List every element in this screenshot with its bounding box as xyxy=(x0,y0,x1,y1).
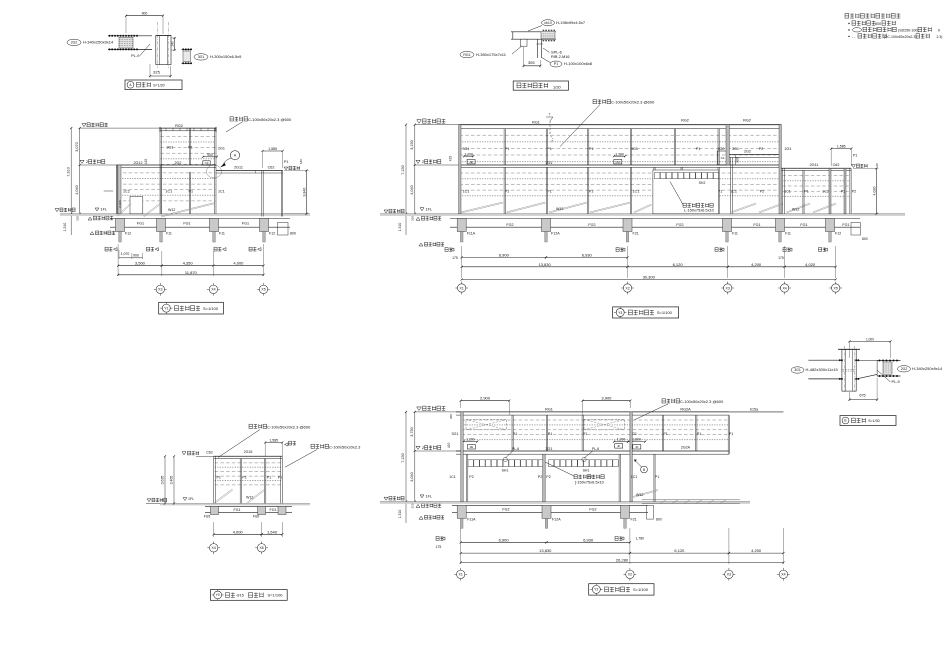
svg-text:13,830: 13,830 xyxy=(539,548,552,553)
W edge and door columns xyxy=(461,412,463,502)
svg-text:(SD250-100): (SD250-100) xyxy=(898,28,919,32)
svg-text:P1: P1 xyxy=(284,160,288,164)
svg-text:X3: X3 xyxy=(726,286,730,290)
svg-text:JE: JE xyxy=(470,445,474,449)
svg-text:1FL: 1FL xyxy=(426,207,433,211)
svg-text:P1: P1 xyxy=(697,432,702,436)
svg-text:CU: CU xyxy=(616,160,620,164)
W ground extension right xyxy=(642,499,740,501)
svg-text:X3: X3 xyxy=(158,288,162,292)
S level label xyxy=(182,452,186,455)
W left dim chain xyxy=(405,412,407,523)
W shutter strips SH1 xyxy=(468,460,544,467)
svg-text:1,310: 1,310 xyxy=(398,510,402,519)
S note tate-dobuchi xyxy=(311,444,329,448)
svg-text:P2: P2 xyxy=(760,190,765,194)
svg-text:SH2: SH2 xyxy=(699,181,706,185)
right lean-to columns Y1 xyxy=(261,171,263,217)
duct box C4 xyxy=(717,151,728,165)
svg-text:RG1: RG1 xyxy=(463,53,470,57)
svg-text:2G2: 2G2 xyxy=(901,367,908,371)
svg-text:X1: X1 xyxy=(459,573,463,577)
svg-text:X1: X1 xyxy=(460,286,464,290)
svg-text:4,040: 4,040 xyxy=(410,472,414,482)
note yoko-dobuchi with leader Y1 xyxy=(230,117,248,121)
detail C corner bolts and column splice xyxy=(839,359,841,361)
svg-text:FG1: FG1 xyxy=(753,223,760,227)
S braces xyxy=(215,490,233,504)
W dim row1 6900 6930 xyxy=(461,541,547,543)
svg-text:1FL: 1FL xyxy=(188,497,194,501)
S top beam xyxy=(214,455,283,457)
svg-text:1,310: 1,310 xyxy=(63,223,67,232)
svg-text:F11: F11 xyxy=(166,232,172,236)
svg-text:FG2: FG2 xyxy=(502,508,509,512)
svg-text:FG1: FG1 xyxy=(137,222,144,226)
svg-text:FG5: FG5 xyxy=(204,514,211,518)
Y1 level 1FL and GL xyxy=(95,208,99,211)
lower building 2F beams xyxy=(117,164,217,166)
right lean-to dim 1585 xyxy=(263,150,283,152)
W 2F floor beam xyxy=(456,450,729,452)
svg-text:140: 140 xyxy=(171,41,175,47)
svg-text:RG2: RG2 xyxy=(743,119,751,123)
svg-text:3,750: 3,750 xyxy=(410,427,414,437)
svg-text:1,800: 1,800 xyxy=(632,438,641,442)
S dim 1585 top xyxy=(265,442,282,444)
column X3 upper gray xyxy=(726,125,729,165)
svg-text:2,900: 2,900 xyxy=(480,396,491,401)
svg-text:SH1: SH1 xyxy=(502,469,509,473)
W grid bubbles xyxy=(454,573,457,575)
svg-text:X3: X3 xyxy=(727,573,731,577)
lower bldg mid column 1C1 xyxy=(159,165,161,214)
svg-text:H-350x175x7x11: H-350x175x7x11 xyxy=(476,52,507,57)
svg-text:P1: P1 xyxy=(548,432,553,436)
W 2F wall hatch xyxy=(462,419,728,421)
svg-text:F11A: F11A xyxy=(467,232,476,236)
svg-text:175: 175 xyxy=(778,256,784,260)
S wall hatch xyxy=(215,462,282,464)
svg-text:X4: X4 xyxy=(782,286,786,290)
svg-text:F12: F12 xyxy=(835,232,841,236)
svg-text:F21: F21 xyxy=(631,518,637,522)
svg-text:7,310: 7,310 xyxy=(67,167,71,177)
M dim row2 13830 6120 4200 4020 xyxy=(462,266,628,268)
M footing beams xyxy=(450,218,860,220)
M building edge columns xyxy=(459,125,461,214)
svg-text:P1: P1 xyxy=(589,190,594,194)
svg-text:2G2: 2G2 xyxy=(71,41,78,45)
svg-text:P1: P1 xyxy=(853,154,857,158)
svg-text:FG1: FG1 xyxy=(242,222,249,226)
Y1 column center marks xyxy=(105,247,112,251)
svg-text:4,200: 4,200 xyxy=(751,548,762,553)
detail B title box xyxy=(513,81,568,90)
svg-text:1FL: 1FL xyxy=(101,208,108,212)
joint detail circle at A xyxy=(206,165,221,178)
svg-text:60: 60 xyxy=(875,163,879,167)
svg-text:2G1: 2G1 xyxy=(546,447,553,451)
svg-text:JF: JF xyxy=(617,444,621,448)
svg-text:X4: X4 xyxy=(211,288,215,292)
svg-text:S=1/20: S=1/20 xyxy=(153,83,165,87)
svg-text:F12: F12 xyxy=(125,232,131,236)
svg-text:1FL: 1FL xyxy=(426,495,433,499)
svg-text:P2: P2 xyxy=(852,190,856,194)
tower RG2 roof beam xyxy=(160,127,216,129)
lower bldg post P1 xyxy=(188,172,190,214)
label RG1 H-350x175x7x11 xyxy=(460,51,474,57)
svg-text:FG2: FG2 xyxy=(588,223,595,227)
W brace W12 right xyxy=(633,491,658,498)
svg-text:RIB 2-M16: RIB 2-M16 xyxy=(551,54,570,59)
label cb10 H-198x99x4.5x7 xyxy=(542,20,555,26)
svg-text:C-100x50x20x2.3: C-100x50x20x2.3 xyxy=(329,444,361,449)
svg-text:1,585: 1,585 xyxy=(269,439,278,443)
svg-text:C-100x50x20x2.3 @600: C-100x50x20x2.3 @600 xyxy=(267,424,311,429)
right vertical dim 3840 xyxy=(284,170,309,172)
svg-text:2: 2 xyxy=(86,159,88,164)
svg-text:FG2: FG2 xyxy=(676,223,683,227)
S title xyxy=(210,590,287,601)
svg-text:310: 310 xyxy=(410,503,414,508)
detail A dim 900 xyxy=(126,15,163,17)
svg-text:X5: X5 xyxy=(834,286,838,290)
M small dim 1200 left and box xyxy=(464,155,473,157)
braces Y1 xyxy=(118,204,131,217)
svg-text:X5: X5 xyxy=(261,288,265,292)
Y1 dim row 3500 4350 4000 xyxy=(118,265,162,267)
svg-text:3,070: 3,070 xyxy=(75,142,79,152)
M lean-to dim 1585 xyxy=(831,148,851,150)
svg-text:3G1: 3G1 xyxy=(732,147,739,151)
detail C haunch diagonal xyxy=(856,374,877,379)
svg-text:800: 800 xyxy=(290,232,296,236)
svg-text:FG1: FG1 xyxy=(270,508,277,512)
svg-text:P1: P1 xyxy=(217,476,221,480)
lower bldg left edge column 1C2 xyxy=(117,165,121,214)
svg-text:P1: P1 xyxy=(188,146,193,150)
svg-text:6,930: 6,930 xyxy=(583,537,594,542)
svg-text:P1: P1 xyxy=(554,62,558,66)
M level labels left xyxy=(415,124,459,126)
svg-text:C4: C4 xyxy=(721,156,725,160)
svg-text:3G1: 3G1 xyxy=(452,432,459,436)
svg-text:1C2: 1C2 xyxy=(822,190,829,194)
svg-text:4,020: 4,020 xyxy=(805,262,816,267)
svg-text:W12: W12 xyxy=(168,208,175,212)
svg-text:C62: C62 xyxy=(206,451,213,455)
lower building wall hatch Y1 xyxy=(117,172,215,174)
svg-text:2,100: 2,100 xyxy=(118,200,122,208)
svg-text:H-100x100x6x8: H-100x100x6x8 xyxy=(564,61,593,66)
svg-text:2G1: 2G1 xyxy=(546,161,553,165)
svg-text:1C1: 1C1 xyxy=(633,190,640,194)
tower wall hatch xyxy=(161,135,216,137)
M roof beam RG1-RG2 xyxy=(459,124,782,126)
svg-text:305: 305 xyxy=(528,60,535,65)
svg-text:C-100x50x20x2.3 @600: C-100x50x20x2.3 @600 xyxy=(680,399,724,404)
svg-text:2G2: 2G2 xyxy=(175,161,182,165)
svg-text:310: 310 xyxy=(75,216,79,221)
svg-text:325: 325 xyxy=(153,69,160,74)
beam 2G2 section with splice bolts xyxy=(108,35,152,37)
svg-text:P1: P1 xyxy=(267,476,271,480)
svg-text:2G12: 2G12 xyxy=(133,161,142,165)
svg-text:410: 410 xyxy=(447,442,451,448)
M 2F posts xyxy=(503,129,505,165)
svg-text:PL-9: PL-9 xyxy=(131,53,140,58)
svg-text:RG2A: RG2A xyxy=(680,407,691,411)
svg-text:2G2A: 2G2A xyxy=(681,445,691,449)
svg-text:13,830: 13,830 xyxy=(538,262,551,267)
Y1 BPL and foundation level labels xyxy=(88,217,92,220)
M braces W12 xyxy=(461,203,503,213)
S footing pedestals xyxy=(211,506,219,514)
W footing beams xyxy=(452,504,648,506)
W title xyxy=(589,584,654,595)
cb10 splice hatch xyxy=(541,32,555,39)
box C3F at tower right xyxy=(203,161,210,165)
svg-text:P1: P1 xyxy=(278,476,282,480)
svg-text:FG1: FG1 xyxy=(800,223,807,227)
svg-text:6,120: 6,120 xyxy=(674,548,685,553)
svg-text:1,780: 1,780 xyxy=(636,537,645,541)
M 1F wall hatch xyxy=(460,172,781,174)
detail A title box xyxy=(125,80,182,90)
svg-text:3,900: 3,900 xyxy=(601,396,612,401)
beam 3G1 lines xyxy=(808,359,842,361)
svg-text:2G2: 2G2 xyxy=(744,150,751,154)
W circled B marker xyxy=(641,466,648,473)
svg-text:P1: P1 xyxy=(242,476,246,480)
Y1 title xyxy=(159,302,224,314)
svg-text:4,040: 4,040 xyxy=(410,185,414,195)
svg-text:S=1/100: S=1/100 xyxy=(203,306,219,311)
column section at detail A xyxy=(156,34,171,36)
hanger post below eave beam xyxy=(521,39,528,46)
elevation M group xyxy=(380,100,905,319)
svg-text:F11A: F11A xyxy=(467,518,476,522)
svg-text:b15a: b15a xyxy=(750,407,758,411)
Y1 level line roof upper xyxy=(80,127,160,129)
svg-text:P1: P1 xyxy=(589,147,594,151)
svg-text:-915: -915 xyxy=(236,593,245,598)
svg-text:2G1: 2G1 xyxy=(218,146,225,150)
M note yoko-dobuchi xyxy=(593,100,611,104)
svg-text:1,585: 1,585 xyxy=(268,147,277,151)
M grid bubbles xyxy=(455,287,458,289)
label 3G1 H-300x150x6.5x9 xyxy=(194,54,208,60)
svg-text:X2: X2 xyxy=(628,573,632,577)
detail A view group xyxy=(67,12,242,90)
label P1 H-100x100x6x8 xyxy=(550,61,562,67)
M 1F posts xyxy=(503,167,505,214)
detail C column centerlines xyxy=(843,346,845,392)
svg-text:900: 900 xyxy=(207,153,213,157)
detail C view group xyxy=(791,337,943,425)
svg-text:FG2: FG2 xyxy=(506,223,513,227)
svg-text:2G11: 2G11 xyxy=(234,166,243,170)
Y1 level line 2F xyxy=(80,164,117,166)
svg-text:(2C-100x50x20x2.3): (2C-100x50x20x2.3) xyxy=(884,35,917,39)
label 3G1 H-482x300x11x15 xyxy=(791,367,804,373)
W right small footing 800 xyxy=(647,505,654,519)
svg-text:P1: P1 xyxy=(696,147,701,151)
W level labels xyxy=(415,411,461,413)
svg-text:JE: JE xyxy=(469,160,473,164)
detail A column centerlines xyxy=(157,22,159,68)
svg-text:P2: P2 xyxy=(759,147,764,151)
door opening Y1 xyxy=(130,197,143,214)
step small dim 900 xyxy=(734,156,736,166)
svg-text:1,310: 1,310 xyxy=(398,223,402,232)
svg-text:900: 900 xyxy=(735,157,739,163)
tower edge columns xyxy=(159,128,161,214)
beam 2G2 right section with bolts xyxy=(877,360,900,362)
W column center marks xyxy=(436,537,443,541)
svg-text:6,900: 6,900 xyxy=(499,537,510,542)
W small dims 1200 1200 1800 and boxes xyxy=(464,441,478,443)
svg-text:P1: P1 xyxy=(804,190,808,194)
svg-text:H-198x99x4.5x7: H-198x99x4.5x7 xyxy=(556,20,586,25)
M lean-to section right xyxy=(781,167,851,169)
svg-text:1/20: 1/20 xyxy=(553,85,562,90)
svg-text:F11: F11 xyxy=(732,232,738,236)
svg-text:PL-6: PL-6 xyxy=(512,447,519,451)
svg-text:1C1: 1C1 xyxy=(463,190,470,194)
svg-text:3G1: 3G1 xyxy=(463,147,470,151)
svg-text:1,200: 1,200 xyxy=(464,152,473,156)
svg-text:900: 900 xyxy=(142,12,148,16)
svg-text:3,840: 3,840 xyxy=(303,188,307,197)
svg-text:3G1: 3G1 xyxy=(167,146,174,150)
svg-text:F12: F12 xyxy=(269,232,275,236)
circled A marker xyxy=(230,151,239,160)
svg-text:3G1: 3G1 xyxy=(794,368,801,372)
W footing pedestals xyxy=(457,505,466,518)
S footing beams xyxy=(205,505,292,507)
svg-text:2: 2 xyxy=(422,159,424,164)
M footing pedestals xyxy=(457,219,466,232)
W roof beam xyxy=(456,411,729,413)
M overall dim 30300 xyxy=(462,279,836,281)
svg-text:1,070: 1,070 xyxy=(121,252,130,256)
svg-text:Y2: Y2 xyxy=(594,588,598,592)
svg-text:2: 2 xyxy=(422,445,424,450)
svg-text:30,300: 30,300 xyxy=(643,275,656,280)
eave beam cb10 lines xyxy=(511,31,556,33)
S columns xyxy=(213,456,215,503)
W ground line xyxy=(380,501,750,503)
svg-text:PL-6: PL-6 xyxy=(592,447,599,451)
svg-text:P1: P1 xyxy=(841,190,845,194)
svg-text:P1: P1 xyxy=(655,475,659,479)
svg-text:S=1/30: S=1/30 xyxy=(868,419,880,423)
svg-text:7,150: 7,150 xyxy=(401,453,405,463)
svg-text:1C1: 1C1 xyxy=(730,190,737,194)
svg-text:3,500: 3,500 xyxy=(135,260,146,265)
svg-text:3,150: 3,150 xyxy=(410,140,414,150)
svg-text:X5: X5 xyxy=(259,546,263,550)
svg-text:FG1: FG1 xyxy=(183,222,190,226)
svg-text:Y0: Y0 xyxy=(216,593,220,597)
svg-text:RG1: RG1 xyxy=(545,408,553,412)
svg-text:6,120: 6,120 xyxy=(673,262,684,267)
svg-text:2G11: 2G11 xyxy=(810,163,819,167)
svg-text:1,000: 1,000 xyxy=(866,337,874,341)
Y1 grid bubbles xyxy=(154,288,157,290)
svg-text:310: 310 xyxy=(410,216,414,221)
svg-text:C-100x50x20x2.3 @600: C-100x50x20x2.3 @600 xyxy=(248,117,292,122)
elevation S group xyxy=(146,424,361,600)
detail C column xyxy=(842,349,856,391)
W note yoko-dobuchi xyxy=(662,399,680,403)
svg-text:1C1: 1C1 xyxy=(218,190,225,194)
svg-text:1C1: 1C1 xyxy=(631,475,638,479)
svg-text:RG1: RG1 xyxy=(532,120,540,124)
svg-text:P2: P2 xyxy=(588,475,592,479)
S left vertical dims xyxy=(164,456,166,503)
svg-text:PL-9: PL-9 xyxy=(892,379,900,384)
svg-text:640: 640 xyxy=(299,159,303,164)
detail C title box xyxy=(840,416,896,426)
svg-text:X4: X4 xyxy=(212,546,216,550)
svg-text:X2: X2 xyxy=(625,286,629,290)
svg-text:H-340x250x9x14: H-340x250x9x14 xyxy=(912,366,943,371)
Y1 left dim chain xyxy=(70,128,72,235)
svg-text:RG2: RG2 xyxy=(175,124,183,128)
svg-text:C62: C62 xyxy=(833,163,840,167)
M ground line xyxy=(380,213,905,215)
svg-text:6,930: 6,930 xyxy=(582,252,593,257)
S levels 1FL GL xyxy=(183,498,187,501)
svg-text:H-482x300x11x15: H-482x300x11x15 xyxy=(806,367,839,372)
svg-text:3,635: 3,635 xyxy=(161,476,165,485)
M right vertical dim 4020 xyxy=(853,167,879,169)
svg-text:S=1/100: S=1/100 xyxy=(657,310,673,315)
M 2F wall hatch xyxy=(460,134,781,136)
svg-text:1,540: 1,540 xyxy=(267,529,278,534)
svg-text:B: B xyxy=(844,419,846,423)
M step roof beams right section xyxy=(727,154,781,156)
svg-text:1,200: 1,200 xyxy=(617,438,626,442)
svg-text:1,200: 1,200 xyxy=(466,438,475,442)
W overall dim 26280 xyxy=(461,562,784,564)
svg-text:RG2: RG2 xyxy=(681,119,689,123)
M door opening with shutter SH2 xyxy=(653,170,719,214)
svg-text:200: 200 xyxy=(449,414,453,419)
svg-text:P2: P2 xyxy=(546,475,550,479)
W dashed X-braced openings xyxy=(466,420,506,430)
svg-text:P2: P2 xyxy=(469,475,473,479)
svg-text:3G1: 3G1 xyxy=(198,55,205,59)
elevation W group xyxy=(380,396,790,595)
tower mid post P1 xyxy=(188,128,190,165)
svg-text:4,000: 4,000 xyxy=(233,529,244,534)
svg-text:7,150: 7,150 xyxy=(401,165,405,175)
svg-text:C62: C62 xyxy=(268,166,275,170)
svg-text:S=1/100: S=1/100 xyxy=(268,593,284,598)
svg-text:F12A: F12A xyxy=(552,518,561,522)
svg-text:2G1: 2G1 xyxy=(785,147,792,151)
svg-text:1C1: 1C1 xyxy=(449,475,456,479)
svg-text:F11: F11 xyxy=(785,232,791,236)
svg-text:F11: F11 xyxy=(219,232,225,236)
svg-text:2G15: 2G15 xyxy=(244,450,253,454)
label 2G2 H-340x250x9x14 xyxy=(898,366,911,372)
